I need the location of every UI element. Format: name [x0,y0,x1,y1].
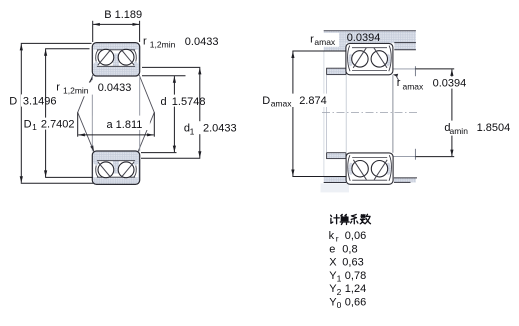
svg-text:1,2min: 1,2min [150,39,176,49]
svg-text:r: r [397,77,401,89]
housing shoulder left (hatched) [324,43,346,51]
svg-text:1,2min: 1,2min [63,85,89,95]
table row e 0,8 [329,243,357,255]
svg-text:amax: amax [271,99,293,109]
ball lower-right [118,162,134,178]
contact line through upper-right ball [121,50,134,66]
contact line upper-left ball [353,48,366,68]
bearing upper section: outer+inner ring (hatched) [92,43,139,76]
svg-text:0.0433: 0.0433 [98,82,132,94]
svg-text:B 1.189: B 1.189 [104,9,142,21]
svg-text:1.5748: 1.5748 [172,96,206,108]
svg-text:0,8: 0,8 [342,243,357,255]
shaft shoulder surface lower-right [393,156,416,158]
contact line lower-right ball [374,160,387,180]
svg-text:amin: amin [450,126,469,136]
svg-text:1: 1 [32,122,37,132]
dimension d1 2.0433 [141,67,200,158]
svg-text:amax: amax [403,82,425,92]
shaft shoulder upper-left (hatched) [327,68,346,74]
svg-text:2.7402: 2.7402 [41,118,75,130]
contact line through upper-left ball [98,50,111,66]
svg-text:X: X [329,257,337,269]
svg-text:d: d [161,96,167,108]
svg-text:1.8504: 1.8504 [477,122,511,134]
mounted ball upper-right [371,51,387,67]
shaft step face right top (tick) [414,66,416,76]
svg-text:2: 2 [337,287,342,297]
dimension a 1.811 [78,112,155,136]
svg-text:0,66: 0,66 [345,297,366,309]
mounted ball upper-left [352,51,368,67]
svg-text:k: k [329,230,335,242]
contact line hexagon right [134,65,154,162]
svg-text:1,24: 1,24 [345,283,366,295]
svg-text:0,78: 0,78 [345,270,366,282]
ball lower-left [98,162,114,178]
centerline (axis) [322,112,419,114]
shaft shoulder surface upper-right [393,68,415,70]
mounted bearing upper section [346,43,393,74]
ball upper-right [118,49,134,65]
svg-text:3.1496: 3.1496 [23,96,57,108]
housing bottom shoulder left (hatched) [324,177,346,183]
dimension damin 1.8504 [415,69,454,157]
mounted ball lower-right [371,161,387,177]
svg-text:0,63: 0,63 [342,257,363,269]
bore line right (d) [139,76,141,151]
contact line through lower-right ball [121,162,134,178]
contact line upper-right ball [374,48,387,68]
svg-text:2.874: 2.874 [299,95,327,107]
svg-text:a 1.811: a 1.811 [107,119,143,131]
svg-text:2.0433: 2.0433 [203,122,237,134]
svg-text:1: 1 [337,274,342,284]
housing bore edge (left, faint) [323,51,325,176]
shaft shoulder lower-left (hatched) [327,153,346,159]
svg-text:r: r [56,82,60,94]
svg-text:0.0394: 0.0394 [347,32,381,44]
title 计算系数 (drawn strokes) [331,214,371,224]
housing bottom step right (hatched) [394,178,417,183]
svg-text:e: e [329,243,335,255]
bearing side face lines between sections [345,75,347,153]
svg-text:0,06: 0,06 [345,230,366,242]
label r amax 0.0394 (top) [308,33,340,47]
mounted bearing lower section [346,153,393,184]
svg-text:r: r [143,36,147,48]
svg-text:0.0394: 0.0394 [433,78,467,90]
contact line through lower-left ball [98,162,111,178]
svg-text:D: D [262,95,270,107]
mounted ball lower-left [352,161,368,177]
svg-text:0.0433: 0.0433 [185,36,219,48]
table row Y2 1,24 [329,283,366,297]
shaft step face left (faint) [326,75,328,153]
dimension B 1.189 [93,21,140,42]
dimension D1 2.7402 [45,49,93,178]
shaft step face right bottom (tick) [414,149,416,160]
dimension d 1.5748 [141,76,186,153]
contact line lower-left ball [353,160,366,180]
housing bottom band ghost [321,183,350,192]
table row kr 0,06 [329,230,367,244]
label r 1,2min 0.0433 (middle, inner ring corner radii) [89,76,94,151]
contact line hexagon left (load lines through balls to vertex a) [78,65,98,162]
svg-text:r: r [336,234,339,244]
svg-text:amax: amax [314,37,336,47]
table row Y0 0,66 [329,297,366,311]
bearing lower section: outer+inner ring (hatched) [92,151,139,184]
table row X 0,63 [329,257,363,269]
svg-text:D: D [9,96,17,108]
label r amax 0.0394 (middle right) [393,74,399,81]
table row Y1 0,78 [329,270,366,284]
housing band (hatched) [324,30,416,43]
svg-text:1: 1 [190,126,195,136]
dimension Damax 2.874 [292,51,346,177]
dimension D 3.1496 [21,43,93,183]
housing step right (hatched) [394,43,416,50]
ball upper-left [98,49,114,65]
bore line left (d) [91,76,93,151]
svg-text:D: D [24,118,32,130]
svg-text:0: 0 [337,300,342,310]
